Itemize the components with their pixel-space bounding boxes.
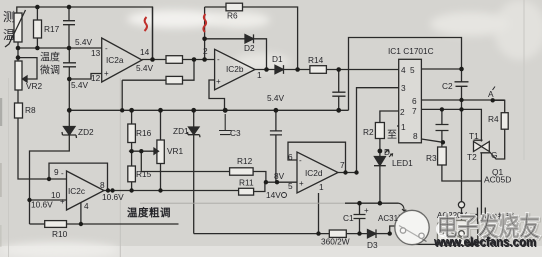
lower rail 360/2W line [194, 233, 330, 235]
resistor R11 on 10.6V line [104, 190, 239, 192]
svg-text:VR1: VR1 [167, 146, 184, 156]
R6 top loop [205, 6, 226, 8]
feedback resistor upper (on output line) [166, 56, 183, 64]
IC2c feedback loop [49, 163, 108, 190]
svg-text:6: 6 [288, 152, 293, 162]
zener ZD1 [193, 110, 195, 126]
svg-text:A: A [488, 89, 494, 99]
thermistor diagonal arrow [5, 10, 26, 47]
IC2d pin11 wire down [318, 193, 320, 234]
svg-text:C1: C1 [343, 213, 354, 223]
IC1 pin7 wire [421, 109, 481, 133]
svg-text:7: 7 [340, 160, 345, 170]
svg-text:+: + [60, 197, 65, 206]
5.4V rail riser to IC1 top [349, 38, 462, 111]
svg-text:www.elecfans.com: www.elecfans.com [433, 234, 536, 249]
svg-text:测: 测 [3, 10, 15, 24]
watermark logo circle [396, 212, 428, 244]
svg-text:-: - [299, 156, 302, 165]
resistor R10 line [30, 223, 45, 225]
svg-text:-: - [105, 44, 108, 53]
svg-text:LED1: LED1 [392, 158, 413, 168]
IC2a output wire [142, 59, 215, 61]
svg-text:R2: R2 [363, 127, 374, 137]
svg-text:+: + [216, 77, 221, 86]
IC1 pin5 wire [421, 68, 461, 70]
neutral wire solid part [345, 202, 399, 204]
red annotation mark 2 [203, 14, 206, 32]
wire bus drop from lower feedback [121, 80, 123, 110]
IC1 pin1 stub [397, 125, 399, 127]
outlet top terminal [458, 202, 464, 208]
wire A node to R4 [493, 100, 505, 112]
zener ZD2 [68, 110, 70, 126]
svg-text:1: 1 [401, 122, 406, 132]
svg-text:360/2W: 360/2W [321, 237, 350, 247]
IC1 pin2 wire to R2 [380, 111, 399, 123]
svg-text:9: 9 [54, 167, 59, 177]
wire pin12 step [69, 74, 101, 80]
svg-text:R6: R6 [227, 11, 238, 21]
svg-text:温度粗调: 温度粗调 [127, 206, 171, 219]
op-amp IC2b [215, 49, 255, 90]
diode D2 wire [205, 38, 245, 40]
5.4V bus [69, 109, 348, 111]
svg-text:+: + [299, 179, 304, 188]
svg-text:5.4V: 5.4V [71, 80, 89, 90]
svg-text:ZD1: ZD1 [173, 126, 189, 136]
wire output up to top rail (marked red) [152, 7, 154, 60]
IC2c pin4 wire [80, 203, 82, 225]
op-amp IC2a [102, 38, 142, 82]
svg-text:G: G [491, 150, 497, 160]
resistor R6 [226, 3, 243, 11]
wire VR2 wiper loop [18, 58, 37, 79]
svg-text:R15: R15 [136, 169, 152, 179]
svg-text:R16: R16 [136, 128, 152, 138]
svg-text:5: 5 [288, 181, 293, 191]
svg-text:IC1 C1701C: IC1 C1701C [388, 46, 434, 56]
svg-text:2: 2 [203, 46, 208, 56]
potentiometer VR1 [160, 110, 162, 140]
triac Q1 [480, 133, 482, 142]
capacitor C1 [354, 203, 366, 233]
heater bottom loop [412, 222, 485, 245]
IC1 pin3 wire down to IC2d out [357, 88, 399, 173]
svg-text:T1: T1 [469, 131, 479, 141]
svg-text:C3: C3 [230, 128, 241, 138]
capacitor from bus to IC2d + [270, 110, 282, 182]
neutral hook into plug [399, 203, 407, 211]
triac gate wire [489, 128, 504, 159]
svg-text:微调: 微调 [40, 64, 60, 77]
svg-text:2: 2 [400, 107, 405, 117]
svg-text:R10: R10 [52, 229, 68, 239]
capacitor under R14 [332, 70, 345, 111]
feedback resistor lower [166, 76, 183, 84]
svg-text:5.4V: 5.4V [267, 93, 285, 103]
svg-text:4: 4 [84, 201, 89, 211]
IC1 pin8 wire [421, 139, 443, 142]
svg-text:8: 8 [413, 131, 418, 141]
scan crease vertical right [523, 0, 525, 160]
svg-text:R14: R14 [308, 55, 324, 65]
svg-text:7: 7 [412, 106, 417, 116]
scan smudge left edge [0, 98, 2, 126]
svg-text:VR2: VR2 [26, 81, 43, 91]
svg-text:1: 1 [319, 182, 324, 192]
svg-text:6: 6 [412, 96, 417, 106]
svg-text:5.4V: 5.4V [136, 63, 154, 73]
neutral faint crease line [140, 202, 345, 204]
LED1 [374, 157, 386, 166]
svg-text:IC2c: IC2c [68, 186, 85, 196]
scan crease vertical [119, 78, 121, 257]
resistor R4 [501, 113, 508, 130]
thermistor RT body [14, 13, 22, 42]
svg-text:8: 8 [100, 180, 105, 190]
svg-text:+: + [104, 69, 109, 78]
svg-text:R4: R4 [488, 114, 499, 124]
svg-text:D: D [384, 147, 390, 157]
IC1 pin6 wire to node A [421, 99, 504, 101]
heater connector bars [470, 208, 485, 222]
svg-text:AC05D: AC05D [484, 175, 511, 185]
VR1 wiper [129, 150, 154, 152]
svg-text:4: 4 [401, 65, 406, 75]
IC2b output wire [255, 69, 275, 71]
svg-text:D3: D3 [367, 240, 378, 250]
outlet body [438, 221, 470, 246]
svg-text:13: 13 [91, 48, 101, 58]
electrolytic capacitor at pin7 [436, 109, 449, 147]
wire thermistor bottom [17, 42, 19, 61]
wire VR2 to R8 [17, 90, 19, 103]
red annotation mark 1 [145, 17, 147, 31]
feedback lower path [122, 79, 166, 81]
svg-text:IC2b: IC2b [226, 64, 244, 74]
VR2 wiper arrowhead [23, 76, 28, 82]
wire pin13 line [18, 47, 102, 49]
svg-text:-: - [217, 55, 220, 64]
svg-text:8V: 8V [274, 171, 285, 181]
resistor R17 [36, 7, 38, 20]
resistor 360/2W [329, 230, 346, 237]
svg-text:R17: R17 [44, 24, 60, 34]
svg-text:R8: R8 [25, 105, 36, 115]
svg-text:D2: D2 [244, 43, 255, 53]
potentiometer VR2 body [15, 61, 22, 90]
capacitor C3 [219, 114, 232, 135]
wire C2 bottom through pin6/pin7 to outlet [461, 100, 463, 202]
svg-text:D1: D1 [272, 54, 283, 64]
svg-text:R3: R3 [426, 153, 437, 163]
wire top rail left [17, 7, 153, 60]
IC2d +input node wires [266, 181, 297, 183]
svg-text:温度: 温度 [40, 51, 60, 64]
wire cap node down to 5.4V bus [68, 79, 70, 110]
svg-text:+: + [364, 206, 369, 215]
svg-text:IC2d: IC2d [305, 168, 323, 178]
diode D2 [245, 34, 254, 43]
resistor R15 [128, 166, 136, 182]
IC2b + input step to bus [209, 80, 225, 110]
plug circle [395, 210, 429, 244]
svg-text:R12: R12 [237, 156, 253, 166]
svg-text:5: 5 [410, 65, 415, 75]
capacitor C2 [455, 69, 469, 100]
svg-text:10.6V: 10.6V [102, 192, 124, 202]
capacitor mid-left lower [63, 48, 76, 79]
IC2d output wire [338, 172, 357, 174]
wire D3 to plug pin [390, 226, 402, 234]
svg-text:3: 3 [401, 83, 406, 93]
svg-text:10.6V: 10.6V [31, 200, 53, 210]
op-amp IC2d [297, 152, 338, 193]
svg-text:14V: 14V [266, 190, 281, 200]
wire R8 down to pin9 [18, 118, 67, 179]
svg-text:14: 14 [140, 47, 150, 57]
IC2d feedback loop [288, 142, 346, 172]
svg-text:1: 1 [257, 70, 262, 80]
svg-text:T2: T2 [467, 152, 477, 162]
diode D3 [368, 229, 377, 238]
svg-text:-: - [61, 169, 64, 178]
resistor R16 [131, 110, 133, 124]
wire R6 node vertical [204, 7, 206, 60]
capacitor top-left upper [63, 7, 75, 48]
svg-text:C2: C2 [442, 81, 453, 91]
wire R3 bottom to T2 [442, 165, 482, 181]
resistor R8 [15, 103, 23, 118]
resistor R12 path [141, 151, 229, 171]
IC2c pin10 wire [30, 199, 67, 201]
svg-text:至: 至 [387, 129, 397, 141]
svg-text:ZD2: ZD2 [78, 127, 94, 137]
scan crease vertical left edge [8, 78, 10, 257]
IC1 chip body [399, 59, 422, 143]
resistor R2 [375, 123, 384, 139]
svg-text:IC2a: IC2a [106, 55, 124, 65]
wire R2 to LED [379, 139, 381, 157]
svg-text:12: 12 [91, 73, 101, 83]
svg-text:R11: R11 [239, 178, 254, 188]
diode D1 [275, 65, 284, 74]
resistor R14 [310, 66, 327, 74]
svg-text:温: 温 [3, 28, 15, 42]
op-amp IC2c [67, 171, 105, 210]
svg-text:5.4V: 5.4V [75, 37, 93, 47]
resistor R3 [438, 147, 447, 165]
